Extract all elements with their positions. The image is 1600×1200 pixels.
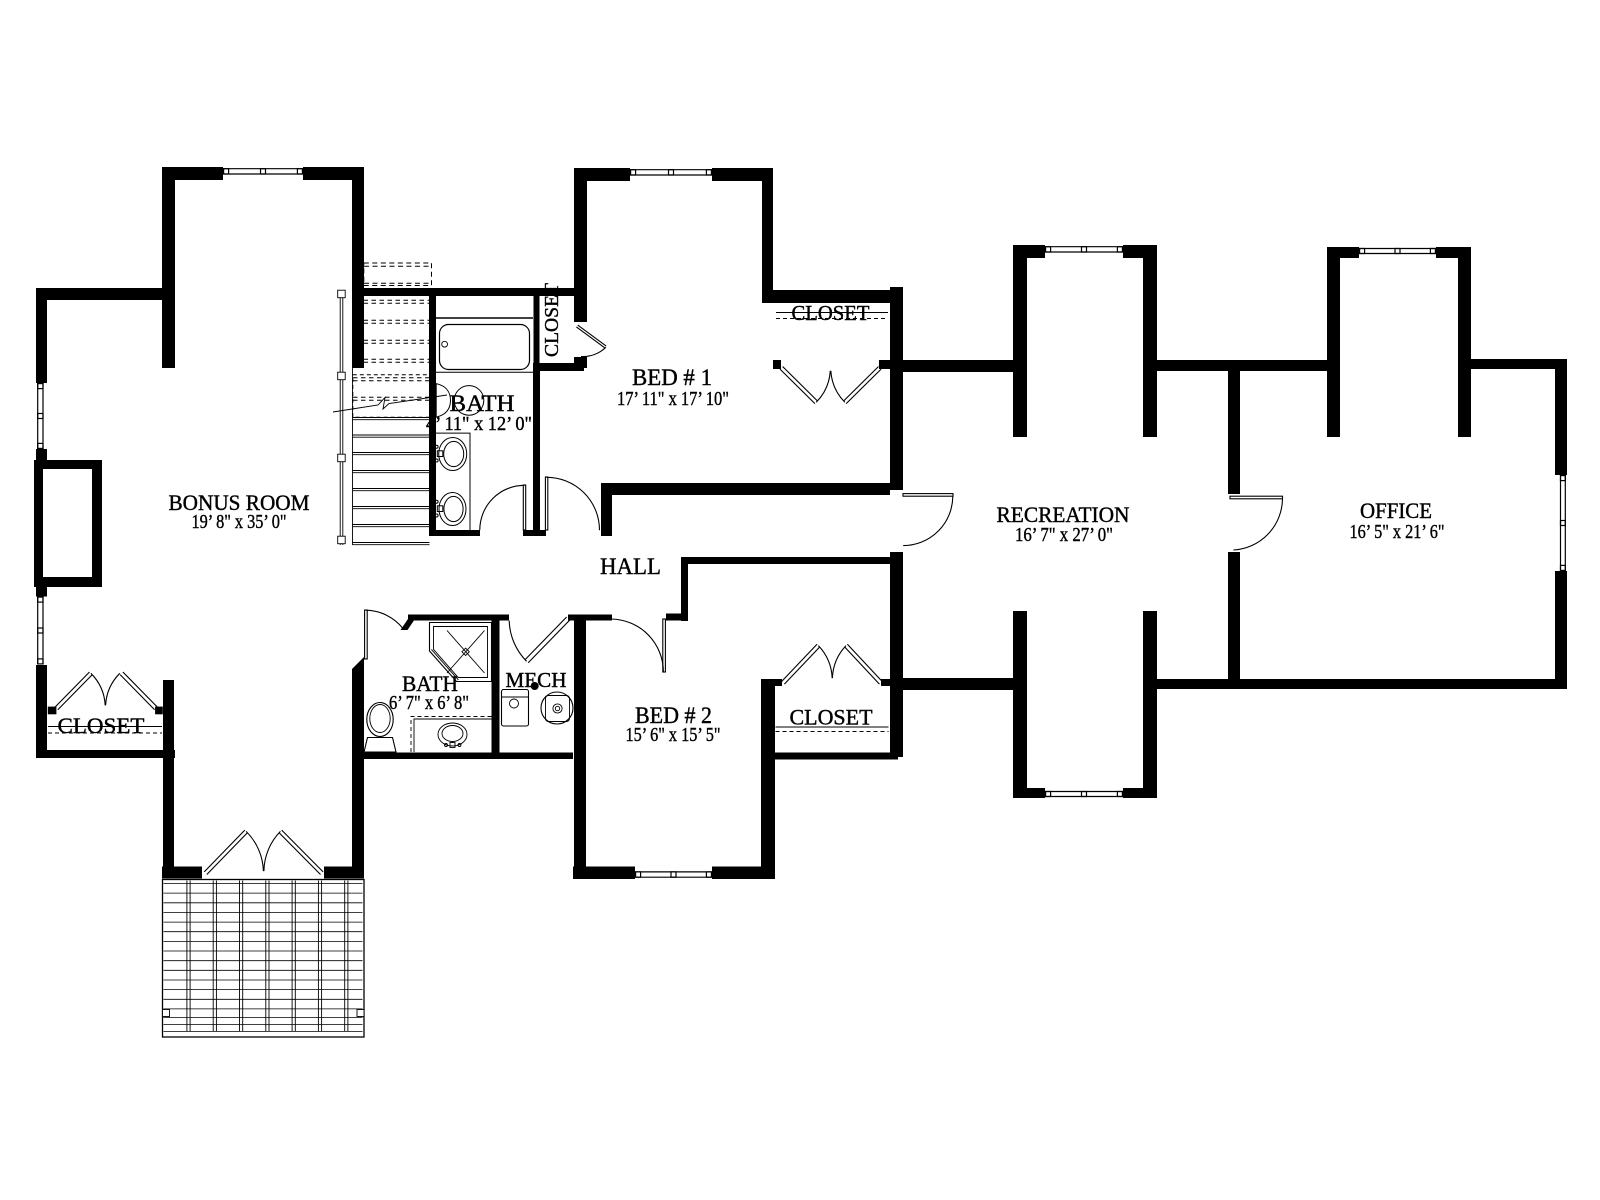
wall: bed2 bottom right segment: [712, 867, 770, 880]
fixture: toilet lower bath: [364, 703, 396, 753]
fixture: lower bath vanity with sink: [411, 717, 492, 753]
wall: recreation bottom bay left: [1013, 611, 1027, 798]
french doors: bonus room to deck: [204, 830, 323, 874]
window: office right wall: [1555, 475, 1567, 571]
fixture: shower lower bath: [430, 623, 492, 682]
knob dot between washer and dryer: [531, 682, 539, 690]
wall: upper bath right: [533, 363, 540, 530]
window: office top bay: [1359, 247, 1436, 258]
wall: upper-left horizontal wall: [36, 288, 175, 300]
jamb: bed2 door right: [666, 614, 681, 621]
svg-text:4’ 11" x 12’ 0": 4’ 11" x 12’ 0": [426, 413, 532, 435]
wall: recreation upper horizontal left: [890, 360, 1013, 372]
wall: bed2 top: [586, 615, 612, 621]
wall: hall door jamb between bath and bed1: [523, 530, 546, 536]
wall: recreation lower horizontal left: [890, 678, 1013, 690]
wall: recreation bottom bay bottom right segment: [1123, 788, 1157, 798]
stair dashed box above landing wall: [364, 263, 432, 286]
door: office (leaf + swing arc): [1230, 496, 1283, 550]
stair railing with posts: [338, 290, 346, 545]
wall: outer left cap below window 1: [36, 449, 47, 460]
wall: recreation/office bottom long: [1157, 679, 1567, 689]
svg-text:17’ 11" x 17’ 10": 17’ 11" x 17’ 10": [617, 388, 729, 410]
wall: office right lower: [1555, 571, 1567, 689]
svg-text:CLOSET: CLOSET: [58, 713, 146, 738]
shelf: top closet: [776, 312, 888, 314]
jamb: bed2 closet bifold right: [881, 679, 890, 686]
jamb: bed2 closet bifold left: [775, 679, 782, 686]
wall: upper bath / stair top horizontal: [363, 288, 584, 296]
wall: recreation top bay top left segment: [1013, 245, 1045, 258]
svg-text:CLOSET: CLOSET: [792, 301, 870, 325]
window: recreation bottom bay: [1045, 788, 1123, 798]
wall: recreation bottom bay right: [1143, 611, 1157, 798]
wall: upper bath left: [429, 288, 436, 532]
svg-text:CLOSET: CLOSET: [541, 283, 563, 357]
wall: bonus room top, right segment: [303, 167, 364, 180]
wall: hall bottom: [681, 557, 893, 564]
wall: angled end of bath top wall: [401, 615, 419, 631]
wall: mid closet bottom: [533, 363, 584, 371]
wall: top closet right upper: [890, 287, 903, 490]
wall: recreation top bay top right segment: [1123, 245, 1157, 258]
door: mid closet to bed1 (angled leaf + arc): [576, 325, 606, 356]
bifold doors: lower-left closet: [55, 672, 157, 710]
wall: office top bay top right segment: [1436, 247, 1471, 258]
wall: office left lower: [1228, 552, 1240, 679]
wall: office left upper: [1228, 360, 1240, 494]
door: bonus room from hall (leaf + swing arc): [365, 610, 403, 659]
window: recreation top bay: [1045, 245, 1123, 258]
door: upper bath (leaf + swing arc): [480, 485, 526, 530]
door: bed2 entry (leaf + swing arc): [611, 619, 666, 672]
wall: recreation/office upper horizontal: [1157, 360, 1327, 371]
svg-text:MECH: MECH: [506, 668, 567, 692]
room labels: [58, 283, 1445, 746]
jamb: mech door right: [568, 615, 576, 621]
wall: outer left segment above window 1: [36, 300, 47, 383]
svg-text:OFFICE: OFFICE: [1360, 498, 1432, 523]
door: bed1 entry from hall (leaf + swing arc): [545, 477, 599, 530]
jamb: top closet bifold right: [879, 360, 890, 369]
wall: closet (lower-left) right / bonus interior: [163, 680, 174, 878]
wall: bed1 top, right segment: [712, 168, 773, 181]
fixture: bathtub: [440, 325, 530, 370]
bifold doors: top closet (opening downward): [780, 367, 881, 404]
wall: mid closet thin left: [534, 293, 540, 363]
window: bonus room top: [223, 167, 303, 180]
jamb: top closet bifold left: [773, 360, 781, 369]
stair lower flight solid treads: [353, 368, 430, 545]
stair break line: [333, 395, 447, 412]
wall: mech/bed2 vertical: [574, 615, 586, 868]
door: hall to recreation (leaf + swing arc): [903, 494, 953, 546]
stair upper flight dashed treads: [364, 300, 430, 362]
wall: lower bath/mech bottom: [352, 753, 573, 760]
wall: bed1 top, left segment: [575, 168, 630, 181]
stair landing dashed box: [353, 375, 430, 417]
tub platform edge line: [436, 371, 533, 373]
upper bath north thin line: [436, 317, 533, 319]
wall: closet (lower-left) bottom: [36, 750, 175, 758]
closet shelf lines: [48, 313, 889, 734]
wall: bed1 bottom: [610, 483, 890, 495]
wall: office top bay top left segment: [1327, 247, 1359, 258]
wall: office right upper: [1555, 359, 1567, 475]
stairs: [333, 263, 447, 545]
wall: upper bath bottom: [429, 530, 480, 536]
wall: hall/bed2 jog: [681, 557, 688, 621]
fixture: washer in mech: [502, 690, 529, 727]
wall: office top bay right: [1458, 247, 1471, 437]
fixture: dryer in mech: [541, 692, 573, 724]
shelf: bed2 closet: [776, 726, 889, 728]
jamb: lower-left closet bifold right: [155, 707, 163, 715]
wall: bonus room right (upper): [352, 167, 364, 368]
wall: bed2 bottom left segment: [573, 867, 635, 880]
window: left wall lower: [36, 597, 47, 665]
fixture: pedestal sink upper bath: [436, 384, 484, 418]
wall: recreation top bay right: [1143, 245, 1157, 437]
svg-text:CLOSET: CLOSET: [790, 705, 874, 730]
wall: bed2 right: [761, 679, 775, 879]
wall: office top bay left: [1327, 247, 1340, 437]
svg-text:HALL: HALL: [600, 554, 661, 579]
wall: recreation bottom bay bottom left segment: [1013, 788, 1045, 798]
wall: lower bath / mech divider: [492, 615, 500, 760]
wall: mech top: [408, 615, 509, 621]
wall: bonus room bottom, left segment: [162, 867, 202, 879]
wall: bonus room left (upper): [162, 167, 175, 368]
svg-text:16’ 7" x 27’ 0": 16’ 7" x 27’ 0": [1015, 524, 1113, 546]
wall: outer left segment below window 2: [36, 665, 47, 757]
shelf: lower-left closet: [48, 726, 162, 728]
svg-text:BED # 1: BED # 1: [632, 365, 712, 390]
jamb: lower-left closet bifold left: [48, 707, 57, 715]
svg-text:19’ 8" x 35’ 0": 19’ 8" x 35’ 0": [192, 511, 287, 533]
wall: hall/recreation wall lower: [890, 552, 903, 757]
wall: bed1 bottom left stub: [601, 483, 612, 536]
wall: outer left cap below fireplace: [36, 587, 47, 597]
window: bed2 bottom: [635, 867, 712, 880]
wall: office upper horizontal right: [1471, 359, 1555, 369]
window: left wall upper: [36, 383, 47, 449]
wall: bonus room bottom, right segment: [324, 867, 364, 879]
wall: bed1 right: [762, 170, 773, 303]
fixture: upper bath vanity with two sinks: [435, 433, 470, 531]
svg-text:6’ 7" x 6’ 8": 6’ 7" x 6’ 8": [389, 692, 469, 714]
wall: bed1 left: [574, 168, 587, 322]
bifold doors: bed2 closet: [782, 644, 883, 684]
window: bed1 top: [630, 168, 712, 181]
wall: recreation top bay left: [1013, 245, 1027, 437]
svg-text:16’ 5" x 21’ 6": 16’ 5" x 21’ 6": [1350, 521, 1445, 543]
wall: bonus room top, left segment: [162, 167, 223, 180]
wall: top closet top: [762, 290, 903, 303]
door: mech (angled leaf + arc): [509, 617, 570, 663]
wall: bed1 left stub below closet door: [574, 357, 587, 368]
wall: bed2 closet bottom: [761, 753, 898, 760]
deck: [163, 880, 365, 1038]
wall: bonus/bath lower vertical with angled end: [352, 657, 364, 878]
svg-text:15’ 6" x 15’ 5": 15’ 6" x 15’ 5": [626, 724, 721, 746]
fireplace box inner white: [43, 469, 92, 577]
fireplace box outer: [34, 460, 102, 587]
